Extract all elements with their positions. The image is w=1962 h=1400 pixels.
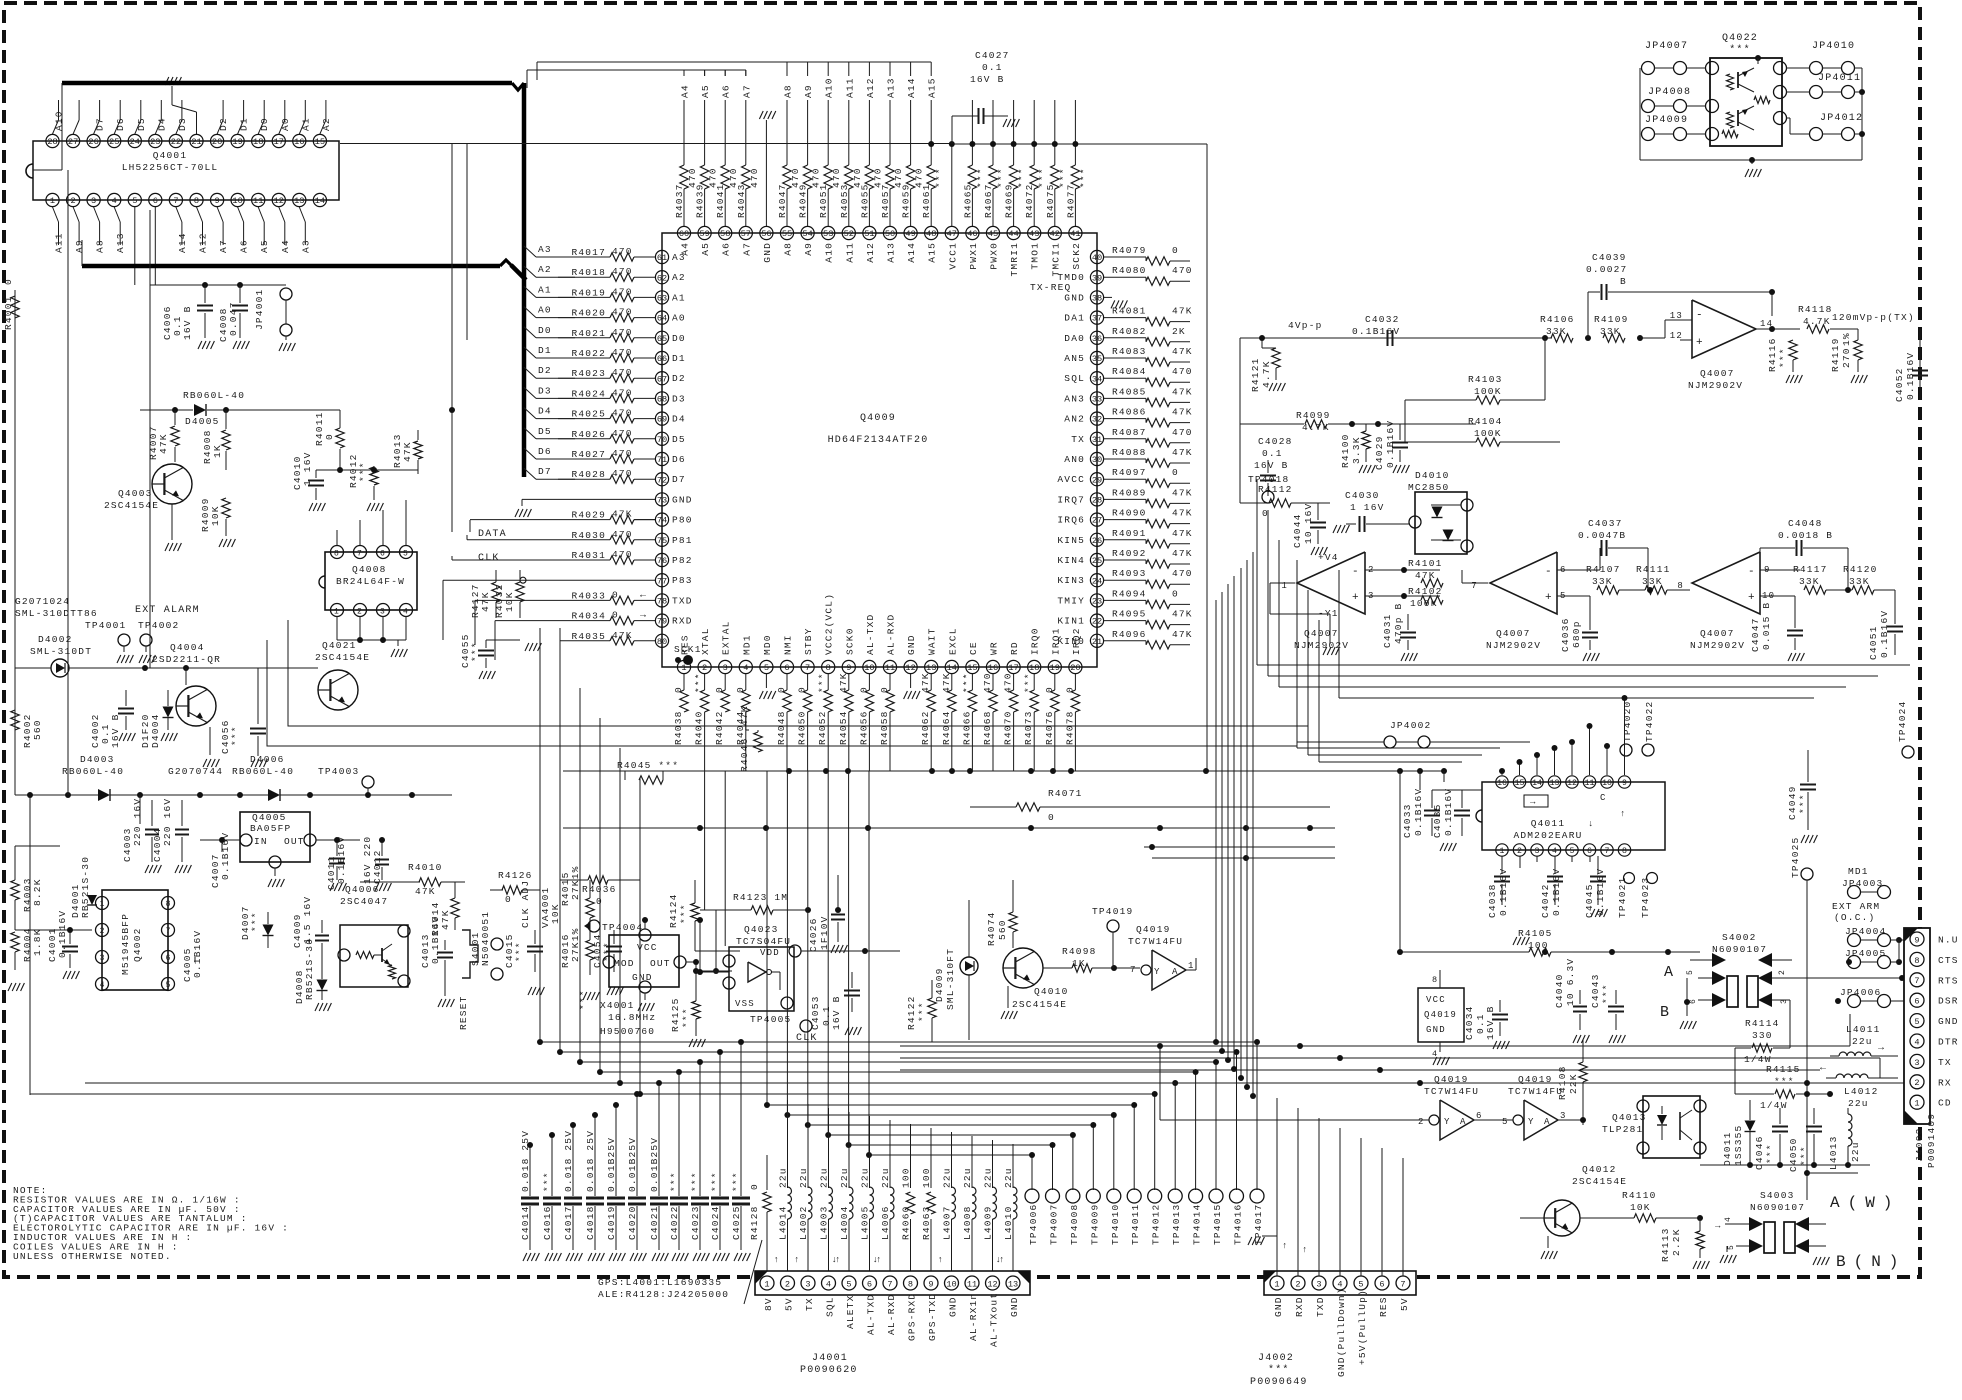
svg-text:470: 470 bbox=[612, 307, 633, 318]
svg-text:47K: 47K bbox=[941, 672, 952, 693]
svg-text:33K: 33K bbox=[1592, 576, 1613, 587]
svg-text:22u: 22u bbox=[1848, 1098, 1869, 1109]
svg-text:L4003: L4003 bbox=[819, 1205, 830, 1240]
svg-text:RTS: RTS bbox=[1938, 975, 1959, 986]
svg-text:470: 470 bbox=[612, 549, 633, 560]
svg-text:JP4008: JP4008 bbox=[1648, 87, 1691, 98]
svg-text:ALETX: ALETX bbox=[845, 1294, 856, 1329]
svg-text:C4034: C4034 bbox=[1464, 1005, 1475, 1040]
svg-text:R4118: R4118 bbox=[1798, 304, 1833, 315]
svg-text:6: 6 bbox=[153, 196, 158, 206]
svg-text:R4096: R4096 bbox=[1112, 629, 1147, 640]
svg-text:R4049: R4049 bbox=[798, 183, 809, 218]
svg-text:0.1B16V: 0.1B16V bbox=[1595, 868, 1606, 916]
svg-text:1/4W: 1/4W bbox=[1760, 1100, 1788, 1111]
svg-text:***: *** bbox=[514, 941, 525, 962]
svg-text:G2071024: G2071024 bbox=[15, 596, 70, 607]
svg-text:C4042: C4042 bbox=[1540, 883, 1551, 918]
svg-text:H9500760: H9500760 bbox=[600, 1026, 655, 1037]
svg-text:37: 37 bbox=[1092, 314, 1102, 324]
svg-text:47K: 47K bbox=[1172, 306, 1193, 317]
svg-text:C4039: C4039 bbox=[1592, 252, 1627, 263]
svg-text:6: 6 bbox=[1914, 997, 1919, 1007]
svg-text:R4054: R4054 bbox=[838, 710, 849, 745]
svg-text:0.1B16V: 0.1B16V bbox=[1385, 420, 1396, 468]
svg-text:C4043: C4043 bbox=[1590, 973, 1601, 1008]
svg-text:47K: 47K bbox=[1172, 386, 1193, 397]
svg-text:38: 38 bbox=[1092, 294, 1102, 304]
svg-text:470: 470 bbox=[982, 672, 993, 693]
svg-text:13: 13 bbox=[294, 196, 304, 206]
svg-text:33K: 33K bbox=[1642, 576, 1663, 587]
svg-text:JP4012: JP4012 bbox=[1820, 113, 1863, 124]
svg-text:59: 59 bbox=[699, 229, 709, 239]
svg-text:2SC4154E: 2SC4154E bbox=[104, 500, 159, 511]
svg-text:3.3K: 3.3K bbox=[1351, 436, 1362, 464]
svg-text:470: 470 bbox=[612, 387, 633, 398]
svg-text:52: 52 bbox=[844, 229, 854, 239]
svg-text:C4047: C4047 bbox=[1750, 617, 1761, 652]
svg-text:JP4006: JP4006 bbox=[1840, 987, 1881, 998]
svg-text:CE: CE bbox=[968, 641, 979, 655]
svg-text:N6090107: N6090107 bbox=[1712, 944, 1767, 955]
svg-text:A5: A5 bbox=[259, 239, 270, 253]
svg-text:→: → bbox=[1878, 1043, 1885, 1054]
svg-text:AN3: AN3 bbox=[1064, 393, 1085, 404]
svg-text:D4011: D4011 bbox=[1722, 1131, 1733, 1166]
svg-text:1: 1 bbox=[1914, 1099, 1919, 1109]
svg-text:A8: A8 bbox=[783, 242, 794, 256]
svg-text:EXT ARM: EXT ARM bbox=[1832, 901, 1880, 912]
svg-text:R4020: R4020 bbox=[571, 308, 606, 319]
svg-text:JP4010: JP4010 bbox=[1812, 41, 1855, 52]
svg-text:C4021: C4021 bbox=[649, 1205, 660, 1240]
svg-text:C4044: C4044 bbox=[1292, 513, 1303, 548]
svg-text:10: 10 bbox=[232, 196, 242, 206]
svg-text:0.1B16V: 0.1B16V bbox=[336, 836, 347, 884]
svg-text:9: 9 bbox=[1622, 779, 1627, 788]
svg-text:SCK0: SCK0 bbox=[844, 627, 855, 655]
svg-text:TP4011: TP4011 bbox=[1130, 1204, 1141, 1245]
svg-text:B(N): B(N) bbox=[1836, 1253, 1906, 1271]
svg-text:TXD: TXD bbox=[1315, 1296, 1326, 1317]
svg-text:1: 1 bbox=[50, 196, 55, 206]
svg-text:0: 0 bbox=[858, 686, 869, 693]
svg-text:0.1B16V: 0.1B16V bbox=[1879, 610, 1890, 658]
svg-text:3: 3 bbox=[1535, 847, 1540, 856]
svg-text:C4049: C4049 bbox=[1787, 785, 1798, 820]
svg-text:15: 15 bbox=[1515, 779, 1525, 788]
svg-text:NJM2902V: NJM2902V bbox=[1486, 640, 1541, 651]
svg-text:R4040: R4040 bbox=[694, 710, 705, 745]
svg-text:27: 27 bbox=[1092, 516, 1102, 526]
svg-text:R4088: R4088 bbox=[1112, 447, 1147, 458]
svg-text:33K: 33K bbox=[1600, 326, 1621, 337]
svg-text:B: B bbox=[1620, 276, 1627, 287]
svg-text:A11: A11 bbox=[844, 242, 855, 263]
svg-text:TLP281: TLP281 bbox=[1602, 1124, 1643, 1135]
svg-text:TP4016: TP4016 bbox=[1233, 1204, 1244, 1245]
svg-text:2: 2 bbox=[357, 608, 363, 617]
svg-text:R4082: R4082 bbox=[1112, 326, 1147, 337]
svg-text:R4106: R4106 bbox=[1540, 314, 1575, 325]
svg-text:Q4007: Q4007 bbox=[1700, 368, 1735, 379]
svg-text:Q4003: Q4003 bbox=[118, 488, 153, 499]
svg-text:↑: ↑ bbox=[1620, 809, 1627, 819]
svg-text:RB521S-30: RB521S-30 bbox=[80, 856, 91, 918]
svg-text:0: 0 bbox=[1044, 686, 1055, 693]
svg-text:TP4014: TP4014 bbox=[1192, 1204, 1203, 1245]
svg-text:R4101: R4101 bbox=[1408, 558, 1443, 569]
svg-text:11: 11 bbox=[967, 1280, 977, 1290]
svg-text:N.U: N.U bbox=[1938, 935, 1959, 946]
svg-text:R4121: R4121 bbox=[1250, 357, 1261, 392]
svg-text:L4007: L4007 bbox=[942, 1205, 953, 1240]
svg-text:A10: A10 bbox=[54, 110, 65, 131]
svg-text:66: 66 bbox=[657, 354, 667, 364]
svg-text:C4026: C4026 bbox=[808, 917, 819, 952]
svg-text:Q4019: Q4019 bbox=[1136, 924, 1171, 935]
svg-text:↑: ↑ bbox=[1302, 1245, 1309, 1255]
svg-text:VCC: VCC bbox=[1426, 995, 1446, 1005]
svg-text:L4010: L4010 bbox=[1003, 1205, 1014, 1240]
svg-text:Q4005: Q4005 bbox=[252, 812, 287, 823]
svg-text:DSR: DSR bbox=[1938, 996, 1959, 1007]
svg-text:A14: A14 bbox=[177, 232, 188, 253]
svg-text:R4085: R4085 bbox=[1112, 386, 1147, 397]
svg-text:A: A bbox=[1664, 964, 1674, 981]
svg-text:***: *** bbox=[1078, 167, 1089, 188]
svg-text:R4050: R4050 bbox=[797, 710, 808, 745]
svg-text:D3: D3 bbox=[538, 385, 552, 396]
svg-text:D7: D7 bbox=[95, 117, 106, 131]
svg-text:AVCC: AVCC bbox=[1057, 474, 1085, 485]
svg-text:GND: GND bbox=[1273, 1296, 1284, 1317]
svg-text:C4035: C4035 bbox=[1432, 803, 1443, 838]
svg-text:2SC4047: 2SC4047 bbox=[340, 896, 388, 907]
svg-text:A0: A0 bbox=[672, 313, 686, 324]
svg-text:16V B: 16V B bbox=[110, 713, 121, 748]
svg-text:L4002: L4002 bbox=[798, 1205, 809, 1240]
svg-text:R4062: R4062 bbox=[920, 710, 931, 745]
svg-text:C4023: C4023 bbox=[690, 1205, 701, 1240]
svg-text:R4080: R4080 bbox=[1112, 265, 1147, 276]
svg-text:TP4004: TP4004 bbox=[602, 922, 643, 933]
svg-text:TP4022: TP4022 bbox=[1644, 701, 1655, 742]
svg-text:RXD: RXD bbox=[1294, 1296, 1305, 1317]
svg-text:6: 6 bbox=[867, 1280, 872, 1290]
svg-text:-: - bbox=[1545, 566, 1553, 578]
svg-text:NMI: NMI bbox=[783, 634, 794, 655]
svg-text:R4066: R4066 bbox=[961, 710, 972, 745]
svg-text:TX: TX bbox=[1071, 434, 1085, 445]
svg-text:C: C bbox=[1600, 793, 1607, 803]
svg-text:8: 8 bbox=[1914, 956, 1919, 966]
svg-text:15: 15 bbox=[315, 137, 325, 147]
svg-text:R4110: R4110 bbox=[1622, 1190, 1657, 1201]
svg-text:S4003: S4003 bbox=[1760, 1190, 1795, 1201]
svg-text:R4077: R4077 bbox=[1065, 183, 1076, 218]
svg-text:0: 0 bbox=[673, 686, 684, 693]
svg-text:0: 0 bbox=[1172, 467, 1179, 478]
svg-text:GPS-RXD: GPS-RXD bbox=[907, 1293, 918, 1341]
svg-text:0.015 B: 0.015 B bbox=[1761, 602, 1772, 650]
svg-text:R4104: R4104 bbox=[1468, 416, 1503, 427]
svg-text:0: 0 bbox=[1048, 812, 1055, 823]
svg-text:21: 21 bbox=[191, 137, 201, 147]
svg-text:11: 11 bbox=[253, 196, 263, 206]
svg-text:***: *** bbox=[230, 725, 241, 746]
svg-text:TMRI1: TMRI1 bbox=[1009, 242, 1020, 277]
svg-text:12: 12 bbox=[905, 663, 915, 673]
svg-text:A9: A9 bbox=[803, 242, 814, 256]
svg-text:***: *** bbox=[669, 1171, 680, 1192]
svg-text:A5: A5 bbox=[700, 84, 711, 98]
svg-text:A: A bbox=[1460, 1117, 1467, 1127]
svg-text:A: A bbox=[1544, 1117, 1551, 1127]
svg-text:R4052: R4052 bbox=[817, 710, 828, 745]
svg-text:R4091: R4091 bbox=[1112, 528, 1147, 539]
svg-text:N5040051: N5040051 bbox=[480, 911, 491, 966]
svg-text:R4064: R4064 bbox=[941, 710, 952, 745]
svg-text:←: ← bbox=[640, 590, 647, 601]
svg-text:OUT: OUT bbox=[650, 958, 671, 969]
svg-text:A4: A4 bbox=[680, 84, 691, 98]
svg-text:1%: 1% bbox=[1841, 332, 1852, 346]
svg-text:8: 8 bbox=[908, 1280, 913, 1290]
svg-text:CD: CD bbox=[1938, 1098, 1952, 1109]
svg-text:RXD: RXD bbox=[672, 616, 693, 627]
svg-text:TP4001: TP4001 bbox=[85, 620, 126, 631]
svg-text:16V 220: 16V 220 bbox=[362, 836, 373, 884]
svg-text:1.5 16V: 1.5 16V bbox=[302, 896, 313, 944]
svg-text:C4028: C4028 bbox=[1258, 436, 1293, 447]
svg-text:R4042: R4042 bbox=[714, 710, 725, 745]
svg-text:C4037: C4037 bbox=[1588, 518, 1623, 529]
svg-text:47K: 47K bbox=[1172, 629, 1193, 640]
svg-text:A2: A2 bbox=[672, 272, 686, 283]
svg-text:22u: 22u bbox=[860, 1167, 871, 1188]
svg-text:0: 0 bbox=[776, 686, 787, 693]
svg-text:34: 34 bbox=[1092, 374, 1102, 384]
svg-text:57: 57 bbox=[741, 229, 751, 239]
svg-text:78: 78 bbox=[657, 597, 667, 607]
svg-text:C4051: C4051 bbox=[1868, 625, 1879, 660]
svg-text:R4069: R4069 bbox=[1004, 183, 1015, 218]
svg-text:IN: IN bbox=[254, 836, 268, 847]
svg-text:↓: ↓ bbox=[873, 1255, 880, 1265]
svg-text:D0: D0 bbox=[672, 333, 686, 344]
svg-text:R4025: R4025 bbox=[571, 409, 606, 420]
svg-text:MD1: MD1 bbox=[1848, 866, 1869, 877]
svg-text:C4012: C4012 bbox=[372, 849, 383, 884]
svg-text:D0: D0 bbox=[538, 325, 552, 336]
svg-text:2SC4154E: 2SC4154E bbox=[315, 652, 370, 663]
svg-text:0: 0 bbox=[596, 896, 603, 907]
svg-text:22u: 22u bbox=[942, 1167, 953, 1188]
svg-text:470: 470 bbox=[1172, 568, 1193, 579]
svg-text:22u: 22u bbox=[778, 1167, 789, 1188]
svg-text:9: 9 bbox=[215, 196, 220, 206]
svg-text:RB521S-30: RB521S-30 bbox=[304, 938, 315, 1000]
svg-text:Q4008: Q4008 bbox=[352, 564, 387, 575]
svg-text:17: 17 bbox=[1008, 663, 1018, 673]
svg-text:Q4001: Q4001 bbox=[153, 150, 188, 161]
svg-text:0: 0 bbox=[735, 686, 746, 693]
svg-text:55: 55 bbox=[782, 229, 792, 239]
svg-text:3: 3 bbox=[805, 1280, 810, 1290]
svg-text:KIN5: KIN5 bbox=[1057, 535, 1085, 546]
svg-text:RESET: RESET bbox=[458, 995, 469, 1030]
svg-text:0.0018 B: 0.0018 B bbox=[1778, 530, 1833, 541]
svg-text:KIN4: KIN4 bbox=[1057, 555, 1085, 566]
svg-text:47K: 47K bbox=[1172, 407, 1193, 418]
svg-text:41: 41 bbox=[1070, 229, 1080, 239]
svg-text:0: 0 bbox=[505, 894, 512, 905]
svg-text:3: 3 bbox=[723, 663, 728, 673]
svg-text:9: 9 bbox=[928, 1280, 933, 1290]
svg-text:3: 3 bbox=[380, 608, 386, 617]
svg-text:***: *** bbox=[681, 1007, 692, 1028]
svg-text:VCC1: VCC1 bbox=[947, 242, 958, 270]
svg-text:R4075: R4075 bbox=[1045, 183, 1056, 218]
svg-text:47K: 47K bbox=[838, 672, 849, 693]
svg-text:R4029: R4029 bbox=[571, 510, 606, 521]
svg-text:22: 22 bbox=[1092, 617, 1102, 627]
svg-text:C4027: C4027 bbox=[975, 50, 1010, 61]
svg-text:A10: A10 bbox=[824, 77, 835, 98]
svg-text:1: 1 bbox=[1274, 1280, 1279, 1290]
svg-text:D3: D3 bbox=[177, 117, 188, 131]
svg-text:R4120: R4120 bbox=[1843, 564, 1878, 575]
svg-text:TP4003: TP4003 bbox=[318, 766, 359, 777]
svg-text:6: 6 bbox=[166, 954, 171, 963]
svg-text:A9: A9 bbox=[74, 239, 85, 253]
svg-text:R4051: R4051 bbox=[818, 183, 829, 218]
svg-text:C4033: C4033 bbox=[1402, 803, 1413, 838]
svg-text:P81: P81 bbox=[672, 535, 693, 546]
svg-text:470: 470 bbox=[612, 408, 633, 419]
svg-text:IRQ0: IRQ0 bbox=[1030, 627, 1041, 655]
svg-text:6: 6 bbox=[1379, 1280, 1384, 1290]
svg-text:64: 64 bbox=[657, 314, 667, 324]
svg-text:A6: A6 bbox=[239, 239, 250, 253]
svg-text:5V: 5V bbox=[1399, 1297, 1410, 1311]
svg-text:L4012: L4012 bbox=[1844, 1086, 1879, 1097]
svg-text:→: → bbox=[640, 611, 647, 622]
svg-text:R4055: R4055 bbox=[859, 183, 870, 218]
svg-text:R4095: R4095 bbox=[1112, 609, 1147, 620]
svg-text:R4043: R4043 bbox=[736, 183, 747, 218]
svg-text:1: 1 bbox=[681, 663, 686, 673]
svg-text:GND: GND bbox=[1009, 1296, 1020, 1317]
svg-text:0.1B16V: 0.1B16V bbox=[1443, 788, 1454, 836]
svg-text:22u: 22u bbox=[880, 1167, 891, 1188]
svg-text:***: *** bbox=[470, 641, 481, 662]
svg-text:A12: A12 bbox=[198, 232, 209, 253]
svg-text:P0091409: P0091409 bbox=[1926, 1113, 1937, 1168]
svg-text:25: 25 bbox=[109, 137, 119, 147]
svg-text:23: 23 bbox=[150, 137, 160, 147]
svg-text:TP4009: TP4009 bbox=[1089, 1204, 1100, 1245]
svg-text:8.2K: 8.2K bbox=[32, 878, 43, 906]
svg-text:47K: 47K bbox=[1172, 487, 1193, 498]
svg-text:C4050: C4050 bbox=[1788, 1137, 1799, 1172]
svg-text:R4021: R4021 bbox=[571, 328, 606, 339]
svg-text:0: 0 bbox=[612, 610, 619, 621]
svg-text:PWX1: PWX1 bbox=[968, 242, 979, 270]
svg-text:TP4012: TP4012 bbox=[1151, 1204, 1162, 1245]
svg-text:47K: 47K bbox=[1415, 570, 1436, 581]
svg-text:2SD2211-QR: 2SD2211-QR bbox=[152, 654, 221, 665]
svg-text:R4103: R4103 bbox=[1468, 374, 1503, 385]
svg-text:13: 13 bbox=[1550, 779, 1560, 788]
svg-text:2SC4154E: 2SC4154E bbox=[1012, 999, 1067, 1010]
svg-text:2: 2 bbox=[100, 927, 105, 936]
svg-text:3: 3 bbox=[100, 954, 105, 963]
svg-text:R4072: R4072 bbox=[1024, 183, 1035, 218]
svg-text:16: 16 bbox=[294, 137, 304, 147]
svg-text:4: 4 bbox=[100, 981, 105, 990]
svg-text:28: 28 bbox=[47, 137, 57, 147]
svg-text:Q4007: Q4007 bbox=[1304, 628, 1339, 639]
svg-text:54: 54 bbox=[802, 229, 812, 239]
svg-text:16V B: 16V B bbox=[831, 995, 842, 1030]
svg-text:7: 7 bbox=[357, 550, 363, 559]
svg-text:32: 32 bbox=[1092, 415, 1102, 425]
svg-text:SCK2: SCK2 bbox=[1071, 242, 1082, 270]
svg-text:IRQ7: IRQ7 bbox=[1057, 494, 1085, 505]
svg-text:JP4011: JP4011 bbox=[1818, 73, 1861, 84]
svg-text:2SC4154E: 2SC4154E bbox=[1572, 1176, 1627, 1187]
svg-text:10: 10 bbox=[1602, 779, 1612, 788]
svg-text:***: *** bbox=[1023, 672, 1034, 693]
svg-text:71: 71 bbox=[657, 455, 667, 465]
svg-text:R4093: R4093 bbox=[1112, 568, 1147, 579]
svg-text:A13: A13 bbox=[886, 77, 897, 98]
svg-text:D5: D5 bbox=[538, 426, 552, 437]
svg-text:ALE:R4128:J24205000: ALE:R4128:J24205000 bbox=[598, 1289, 729, 1300]
svg-text:1: 1 bbox=[100, 900, 105, 909]
svg-text:1: 1 bbox=[334, 608, 340, 617]
svg-text:Y: Y bbox=[1528, 1117, 1535, 1127]
svg-text:AL-TXD: AL-TXD bbox=[865, 614, 876, 655]
svg-text:R4046: R4046 bbox=[739, 737, 750, 772]
svg-text:7: 7 bbox=[805, 663, 810, 673]
svg-text:R4084: R4084 bbox=[1112, 366, 1147, 377]
svg-text:R4089: R4089 bbox=[1112, 487, 1147, 498]
svg-text:R4041: R4041 bbox=[715, 183, 726, 218]
svg-text:5: 5 bbox=[1686, 969, 1695, 975]
svg-text:+: + bbox=[1545, 592, 1553, 604]
svg-text:***: *** bbox=[1774, 1076, 1795, 1087]
svg-text:AL-RX1n: AL-RX1n bbox=[968, 1293, 979, 1341]
svg-text:12: 12 bbox=[1567, 779, 1577, 788]
svg-text:C4030: C4030 bbox=[1345, 490, 1380, 501]
svg-text:L4008: L4008 bbox=[962, 1205, 973, 1240]
svg-text:SML-310FT: SML-310FT bbox=[945, 948, 956, 1010]
svg-text:TX: TX bbox=[804, 1297, 815, 1311]
svg-text:5: 5 bbox=[1570, 847, 1575, 856]
svg-text:R4081: R4081 bbox=[1112, 306, 1147, 317]
svg-text:R4033: R4033 bbox=[571, 590, 606, 601]
svg-text:46: 46 bbox=[967, 229, 977, 239]
svg-text:→: → bbox=[1530, 797, 1537, 807]
svg-text:Q4021: Q4021 bbox=[322, 640, 357, 651]
svg-text:22u: 22u bbox=[839, 1167, 850, 1188]
svg-text:A1: A1 bbox=[672, 292, 686, 303]
svg-text:P82: P82 bbox=[672, 555, 693, 566]
